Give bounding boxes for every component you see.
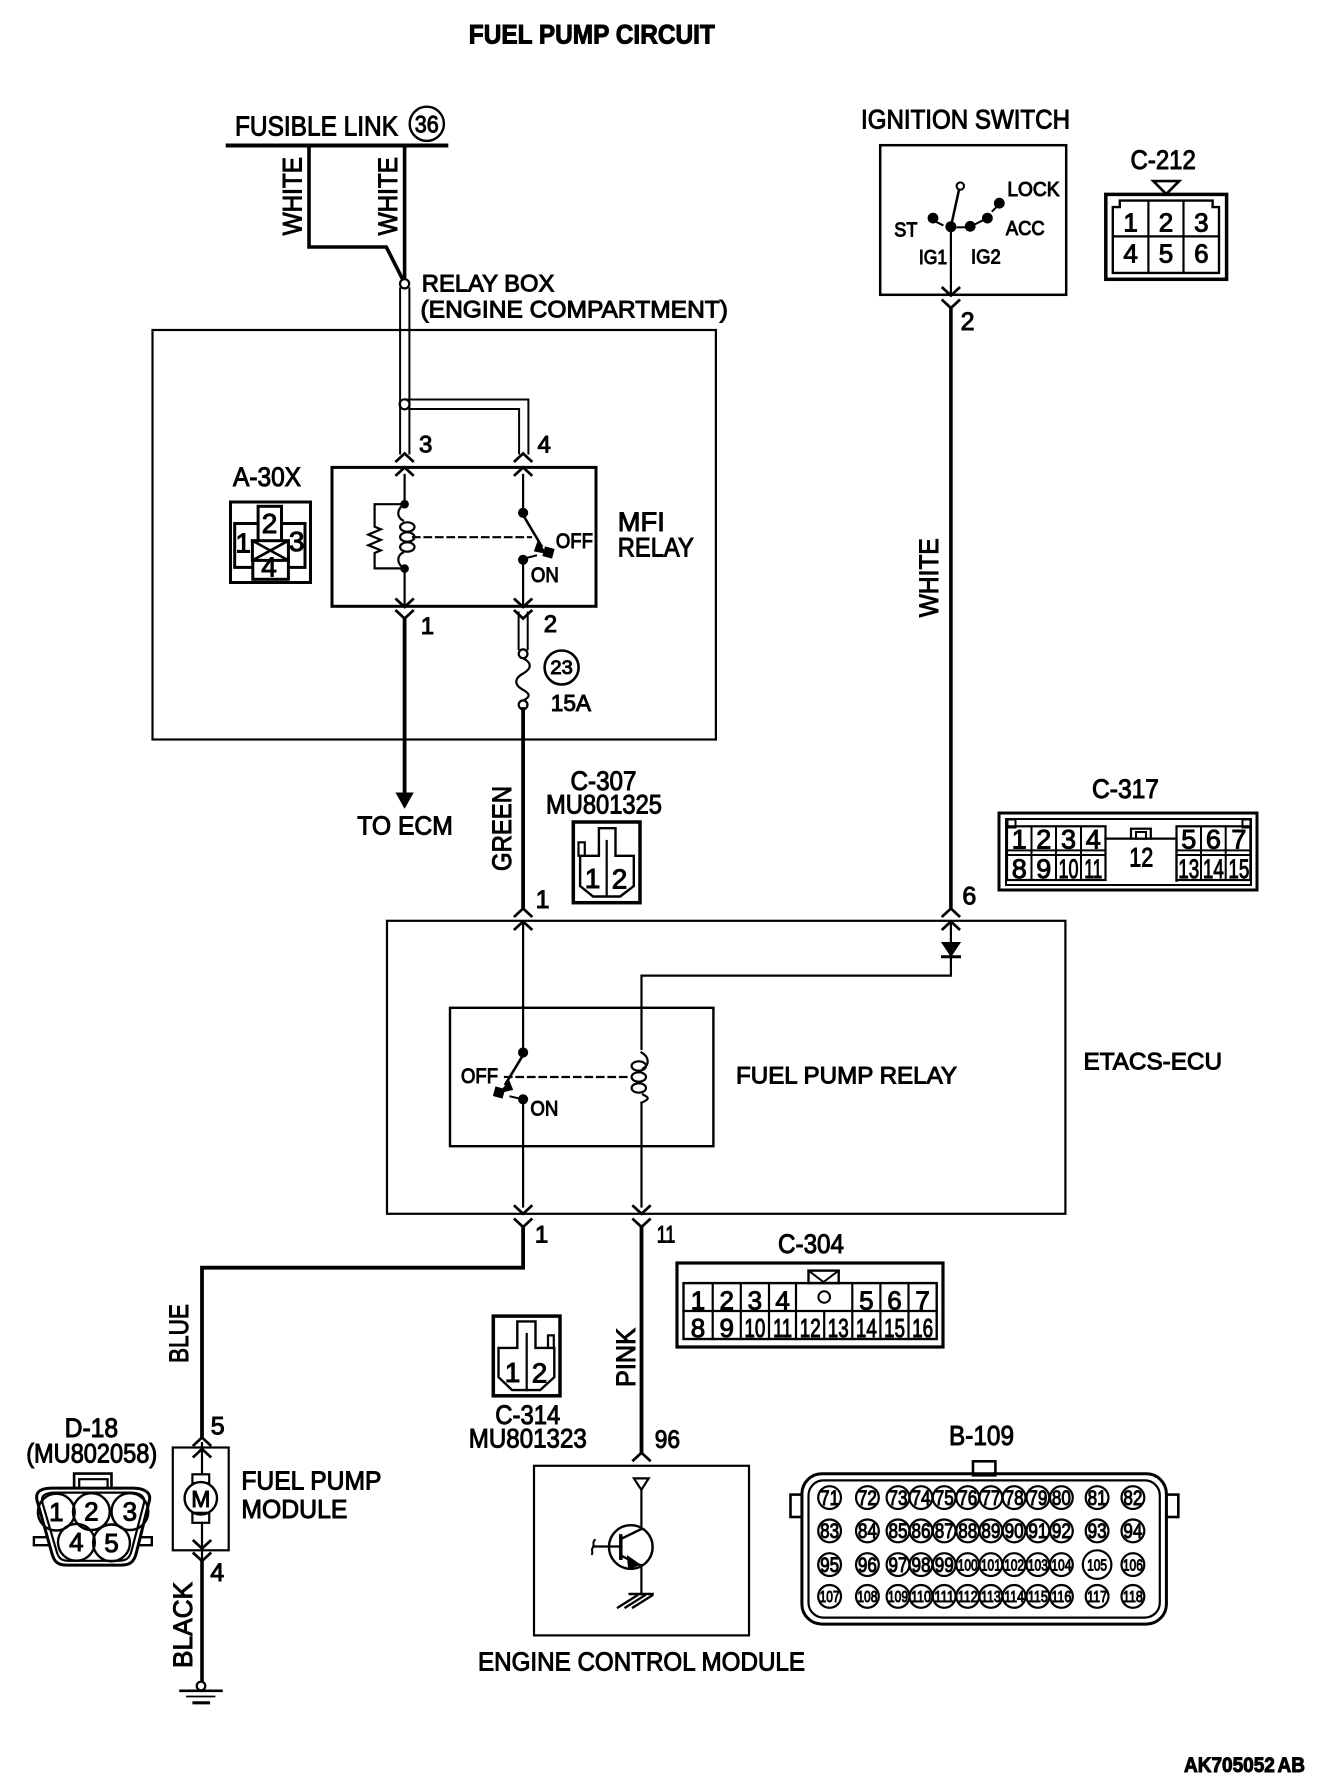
svg-text:83: 83 xyxy=(820,1520,839,1543)
svg-text:WHITE: WHITE xyxy=(373,157,403,235)
svg-text:OFF: OFF xyxy=(556,530,593,553)
ETACS-ECU box xyxy=(387,921,1065,1214)
svg-text:95: 95 xyxy=(820,1554,839,1577)
svg-text:ETACS-ECU: ETACS-ECU xyxy=(1084,1048,1223,1075)
svg-text:36: 36 xyxy=(415,112,439,139)
svg-text:IG1: IG1 xyxy=(919,247,947,269)
wire PINK xyxy=(640,1227,644,1453)
svg-text:1: 1 xyxy=(1123,207,1137,237)
svg-text:6: 6 xyxy=(887,1286,901,1316)
svg-text:2: 2 xyxy=(1036,825,1051,855)
svg-text:TO ECM: TO ECM xyxy=(357,810,453,840)
svg-text:12: 12 xyxy=(800,1313,821,1343)
MFI relay box xyxy=(332,467,596,606)
svg-text:2: 2 xyxy=(612,864,628,895)
svg-text:B-109: B-109 xyxy=(949,1420,1014,1451)
svg-text:2: 2 xyxy=(961,308,975,336)
svg-text:3: 3 xyxy=(748,1286,762,1316)
wire double-line branch to pin 4 xyxy=(405,400,529,454)
connector C-212 xyxy=(1153,181,1179,194)
svg-text:2: 2 xyxy=(84,1497,98,1527)
svg-text:74: 74 xyxy=(912,1487,931,1510)
pin 4 arrows xyxy=(194,1541,210,1549)
svg-text:ST: ST xyxy=(894,220,917,242)
svg-text:105: 105 xyxy=(1087,1557,1107,1574)
svg-text:110: 110 xyxy=(911,1589,931,1606)
wire triangle to transistor xyxy=(640,1490,642,1529)
pin 4 arrows xyxy=(515,454,531,462)
svg-text:80: 80 xyxy=(1052,1487,1071,1510)
svg-text:4: 4 xyxy=(69,1527,83,1557)
svg-text:7: 7 xyxy=(915,1286,929,1316)
relay box (engine compartment) xyxy=(153,330,716,740)
svg-text:4: 4 xyxy=(261,551,277,582)
svg-text:3: 3 xyxy=(1061,825,1076,855)
junction node xyxy=(400,399,410,409)
svg-text:104: 104 xyxy=(1051,1557,1071,1574)
pin 1 arrows xyxy=(396,599,412,607)
wire motor to pin 4 xyxy=(201,1523,203,1559)
svg-text:2: 2 xyxy=(532,1358,548,1389)
svg-text:101: 101 xyxy=(981,1557,1001,1574)
svg-text:118: 118 xyxy=(1123,1589,1143,1606)
resistor (MFI relay) xyxy=(368,504,404,568)
svg-text:1: 1 xyxy=(505,1357,521,1388)
svg-text:BLUE: BLUE xyxy=(164,1304,194,1363)
contact LOCK xyxy=(994,198,1004,208)
svg-text:84: 84 xyxy=(858,1520,877,1543)
svg-text:92: 92 xyxy=(1052,1520,1071,1543)
svg-text:1: 1 xyxy=(691,1286,705,1316)
motor M (fuel pump) xyxy=(192,1474,209,1483)
node relay box entry xyxy=(400,279,409,288)
transistor Q1 xyxy=(609,1525,653,1569)
svg-text:(MU802058): (MU802058) xyxy=(26,1439,157,1469)
svg-text:76: 76 xyxy=(958,1487,977,1510)
svg-text:WHITE: WHITE xyxy=(277,157,307,235)
svg-text:71: 71 xyxy=(820,1487,839,1510)
svg-text:114: 114 xyxy=(1004,1589,1024,1606)
fusible link bus bar xyxy=(228,144,447,148)
svg-text:14: 14 xyxy=(1203,854,1224,884)
svg-text:ON: ON xyxy=(531,564,559,587)
svg-text:5: 5 xyxy=(211,1413,225,1441)
connector B-109 shell xyxy=(973,1461,995,1475)
pin 1 arrows (ETACS top) xyxy=(515,909,531,917)
svg-text:LOCK: LOCK xyxy=(1007,179,1060,201)
ignition common contact xyxy=(946,222,956,232)
connector B-109 pins xyxy=(818,1486,841,1509)
pin 2 arrows xyxy=(515,599,531,607)
svg-text:10: 10 xyxy=(744,1313,765,1343)
svg-text:13: 13 xyxy=(828,1313,849,1343)
pin 5 arrows xyxy=(194,1438,210,1446)
svg-text:A-30X: A-30X xyxy=(233,462,301,492)
svg-text:8: 8 xyxy=(691,1313,705,1343)
svg-text:109: 109 xyxy=(888,1589,908,1606)
connector D-18 xyxy=(34,1537,49,1545)
svg-text:79: 79 xyxy=(1028,1487,1047,1510)
svg-text:4: 4 xyxy=(1123,239,1137,269)
wire WHITE right xyxy=(403,147,407,279)
svg-text:C-304: C-304 xyxy=(778,1229,844,1259)
ignition output wire xyxy=(950,231,952,295)
wire diode to relay coil xyxy=(642,957,951,1049)
svg-text:16: 16 xyxy=(912,1313,933,1343)
svg-text:1: 1 xyxy=(421,613,434,640)
svg-text:81: 81 xyxy=(1088,1487,1107,1510)
arrow TO ECM xyxy=(396,793,413,808)
svg-text:OFF: OFF xyxy=(461,1065,498,1088)
svg-text:98: 98 xyxy=(912,1554,931,1577)
fuel pump module box xyxy=(173,1448,229,1551)
svg-text:2: 2 xyxy=(544,611,557,638)
svg-text:112: 112 xyxy=(958,1589,978,1606)
pin 1 arrows (ETACS bottom) xyxy=(515,1206,531,1214)
svg-text:106: 106 xyxy=(1123,1557,1143,1574)
svg-text:78: 78 xyxy=(1005,1487,1024,1510)
svg-text:GREEN: GREEN xyxy=(487,786,517,871)
chassis ground xyxy=(630,1593,653,1595)
svg-text:ENGINE CONTROL MODULE: ENGINE CONTROL MODULE xyxy=(478,1647,805,1677)
svg-text:91: 91 xyxy=(1028,1520,1047,1543)
svg-text:FUEL PUMP CIRCUIT: FUEL PUMP CIRCUIT xyxy=(469,20,715,50)
svg-text:C-212: C-212 xyxy=(1131,145,1196,175)
connector C-304 xyxy=(677,1263,943,1347)
contact IG2 xyxy=(965,221,975,231)
power triangle xyxy=(634,1478,649,1490)
svg-text:94: 94 xyxy=(1123,1520,1142,1543)
fuse top terminal xyxy=(519,649,528,658)
svg-text:4: 4 xyxy=(775,1286,789,1316)
svg-text:MU801325: MU801325 xyxy=(546,790,662,820)
svg-text:(ENGINE COMPARTMENT): (ENGINE COMPARTMENT) xyxy=(421,297,729,324)
svg-text:1: 1 xyxy=(1012,825,1027,855)
wire GREEN xyxy=(521,709,525,907)
svg-text:4: 4 xyxy=(210,1559,224,1587)
pin 11 arrows xyxy=(633,1206,649,1214)
svg-text:10: 10 xyxy=(1059,854,1079,884)
node coil bottom xyxy=(401,565,409,573)
svg-text:97: 97 xyxy=(889,1554,908,1577)
fuel pump relay box xyxy=(450,1008,713,1146)
svg-text:11: 11 xyxy=(1084,854,1102,884)
svg-text:93: 93 xyxy=(1088,1520,1107,1543)
connector C-314 xyxy=(493,1316,560,1396)
ground xyxy=(181,1690,222,1693)
svg-text:107: 107 xyxy=(820,1589,840,1606)
svg-text:14: 14 xyxy=(856,1313,877,1343)
svg-text:9: 9 xyxy=(1036,854,1051,884)
pin 6 arrows xyxy=(943,909,959,917)
svg-text:MU801323: MU801323 xyxy=(469,1424,587,1454)
ignition key pivot xyxy=(957,182,964,189)
wire pin3 to coil xyxy=(404,475,406,501)
wire coil to pin 1 xyxy=(404,572,406,606)
svg-text:1: 1 xyxy=(235,528,251,559)
svg-text:IGNITION SWITCH: IGNITION SWITCH xyxy=(861,105,1070,135)
engine control module box xyxy=(534,1466,749,1636)
svg-text:RELAY BOX: RELAY BOX xyxy=(422,271,555,298)
svg-text:96: 96 xyxy=(858,1554,877,1577)
ground terminal xyxy=(197,1682,206,1691)
wire ETACS to FP switch xyxy=(522,922,524,1050)
ignition pin 2 arrows xyxy=(943,288,959,296)
svg-text:117: 117 xyxy=(1087,1589,1107,1606)
svg-text:1: 1 xyxy=(585,863,601,894)
FP relay coil xyxy=(642,1053,648,1069)
svg-text:RELAY: RELAY xyxy=(618,532,694,562)
svg-text:2: 2 xyxy=(1159,207,1173,237)
svg-text:90: 90 xyxy=(1005,1520,1024,1543)
wire into module xyxy=(201,1443,203,1474)
wire FP switch to pin 1 xyxy=(522,1104,524,1207)
svg-text:82: 82 xyxy=(1123,1487,1142,1510)
wire BLACK xyxy=(200,1561,204,1682)
fusible link circle 36 xyxy=(410,107,444,141)
svg-text:AK705052AB: AK705052AB xyxy=(1184,1754,1305,1777)
svg-text:1: 1 xyxy=(536,886,550,914)
svg-text:85: 85 xyxy=(889,1520,908,1543)
connector C-307 xyxy=(573,822,640,903)
svg-text:BLACK: BLACK xyxy=(168,1582,198,1668)
svg-text:23: 23 xyxy=(550,658,572,679)
svg-text:96: 96 xyxy=(655,1426,680,1454)
svg-text:4: 4 xyxy=(538,432,551,459)
svg-text:99: 99 xyxy=(935,1554,954,1577)
svg-text:9: 9 xyxy=(719,1313,733,1343)
svg-text:FUEL PUMP RELAY: FUEL PUMP RELAY xyxy=(736,1063,957,1090)
svg-text:11: 11 xyxy=(657,1221,676,1248)
svg-text:75: 75 xyxy=(935,1487,954,1510)
svg-text:WHITE: WHITE xyxy=(914,538,944,617)
svg-text:100: 100 xyxy=(958,1557,978,1574)
svg-text:13: 13 xyxy=(1178,854,1199,884)
contact ACC xyxy=(983,213,993,223)
dashed link (FP relay) xyxy=(505,1076,629,1078)
MFI relay coil xyxy=(398,504,404,520)
svg-text:73: 73 xyxy=(889,1487,908,1510)
svg-text:3: 3 xyxy=(419,432,432,459)
svg-text:FUSIBLE LINK: FUSIBLE LINK xyxy=(235,111,398,142)
svg-text:2: 2 xyxy=(262,508,278,539)
svg-text:8: 8 xyxy=(1012,854,1027,884)
wire WHITE (ignition to ETACS) xyxy=(949,310,953,907)
svg-text:15A: 15A xyxy=(551,690,592,716)
svg-text:ON: ON xyxy=(530,1098,558,1121)
svg-text:102: 102 xyxy=(1004,1557,1024,1574)
pin 3 arrows xyxy=(396,454,412,462)
svg-text:3: 3 xyxy=(123,1497,137,1527)
svg-text:6: 6 xyxy=(1206,825,1221,855)
svg-text:M: M xyxy=(191,1486,210,1512)
wire double-line pin 2 xyxy=(518,613,520,650)
svg-text:7: 7 xyxy=(1231,825,1246,855)
svg-text:86: 86 xyxy=(912,1520,931,1543)
svg-text:IG2: IG2 xyxy=(971,247,1001,269)
connector A-30X xyxy=(231,502,311,583)
svg-text:C-317: C-317 xyxy=(1092,774,1159,804)
svg-text:1: 1 xyxy=(535,1222,548,1249)
MFI switch OFF contact xyxy=(543,547,554,558)
wire FP coil to pin 11 xyxy=(640,1103,642,1207)
svg-text:2: 2 xyxy=(719,1286,733,1316)
connector C-317 xyxy=(999,813,1257,890)
svg-text:PINK: PINK xyxy=(611,1328,641,1387)
svg-text:5: 5 xyxy=(104,1528,118,1558)
wire WHITE left xyxy=(309,147,403,279)
MFI switch blade xyxy=(523,515,541,546)
wire BLUE xyxy=(202,1227,523,1437)
wire TO ECM xyxy=(403,619,407,794)
svg-text:103: 103 xyxy=(1028,1557,1048,1574)
pin 96 arrow xyxy=(633,1453,649,1461)
svg-text:12: 12 xyxy=(1129,843,1153,873)
dashed link (MFI relay) xyxy=(413,536,531,538)
svg-text:3: 3 xyxy=(289,526,305,557)
svg-text:5: 5 xyxy=(1181,825,1196,855)
svg-text:111: 111 xyxy=(934,1589,954,1606)
contact ST xyxy=(928,213,938,223)
svg-text:6: 6 xyxy=(962,882,976,910)
svg-text:113: 113 xyxy=(981,1589,1001,1606)
diode xyxy=(950,922,952,942)
svg-text:15: 15 xyxy=(1228,854,1249,884)
svg-text:87: 87 xyxy=(935,1520,954,1543)
svg-text:15: 15 xyxy=(884,1313,905,1343)
svg-text:77: 77 xyxy=(981,1487,1000,1510)
svg-text:FUEL PUMP: FUEL PUMP xyxy=(241,1466,381,1496)
FP switch blade xyxy=(506,1055,524,1084)
svg-text:11: 11 xyxy=(773,1313,792,1343)
svg-text:1: 1 xyxy=(49,1497,63,1527)
svg-text:6: 6 xyxy=(1194,239,1208,269)
svg-text:115: 115 xyxy=(1028,1589,1048,1606)
ignition switch box xyxy=(880,145,1066,295)
svg-text:5: 5 xyxy=(859,1286,873,1316)
svg-text:4: 4 xyxy=(1086,825,1101,855)
svg-text:116: 116 xyxy=(1051,1589,1071,1606)
svg-text:MODULE: MODULE xyxy=(241,1494,347,1524)
svg-text:3: 3 xyxy=(1194,207,1208,237)
MFI switch common xyxy=(522,475,524,509)
wire double-line to junction xyxy=(399,288,401,404)
wire ON to pin 2 xyxy=(522,562,524,606)
svg-text:108: 108 xyxy=(857,1589,877,1606)
FP switch ON contact xyxy=(519,1095,528,1104)
FP switch common xyxy=(519,1048,528,1057)
svg-text:ACC: ACC xyxy=(1006,218,1045,240)
fuse bottom terminal xyxy=(519,700,528,709)
fuse element xyxy=(516,658,530,700)
svg-text:88: 88 xyxy=(958,1520,977,1543)
wire double-line to pin 3 xyxy=(399,404,401,453)
svg-text:72: 72 xyxy=(858,1487,877,1510)
fuse circle 23 xyxy=(545,651,579,685)
svg-text:89: 89 xyxy=(981,1520,1000,1543)
node coil top xyxy=(401,500,409,508)
FP switch OFF contact xyxy=(493,1087,504,1098)
svg-text:5: 5 xyxy=(1159,239,1173,269)
MFI switch ON contact xyxy=(519,555,528,564)
